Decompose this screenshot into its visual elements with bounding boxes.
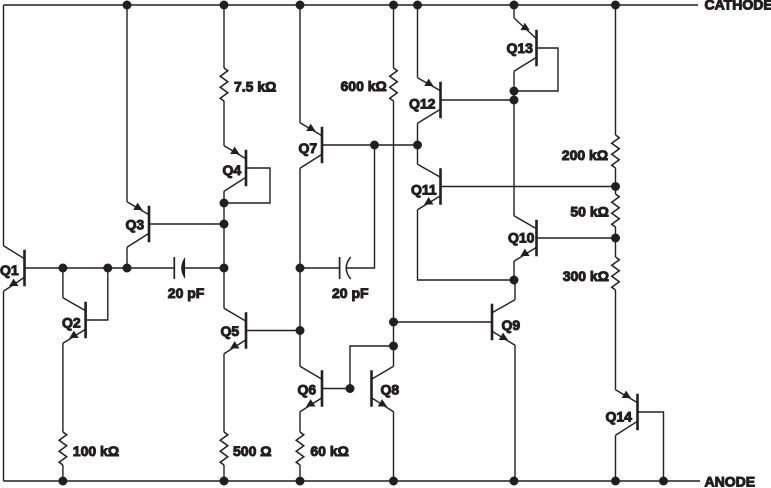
ANODE rail <box>4 480 701 482</box>
svg-text:ANODE: ANODE <box>705 474 756 488</box>
transistor Q5 <box>224 308 246 354</box>
wire Q13 emitter from cathode <box>513 5 515 18</box>
wire C1 to node at x224 <box>185 267 224 269</box>
wire Q2 collector <box>62 268 64 298</box>
wire Q5 collector <box>223 268 225 308</box>
capacitor C1 20 pF <box>173 257 175 279</box>
wire Q11 base <box>441 186 616 188</box>
wire Q3 base <box>149 223 224 225</box>
svg-text:Q5: Q5 <box>221 323 240 339</box>
wire Q11 emitter to node <box>418 210 515 280</box>
capacitor C2 20 pF <box>300 267 340 269</box>
wire Q13 base loop <box>514 48 558 91</box>
transistor Q10 <box>514 216 537 262</box>
wire Q12 collector <box>417 123 419 145</box>
svg-text:20 pF: 20 pF <box>168 285 205 301</box>
wire cathode to R2 <box>223 5 225 68</box>
wire Q6 emitter <box>299 412 301 432</box>
wire x514 run to Q10 <box>513 91 515 216</box>
svg-text:Q14: Q14 <box>606 409 633 425</box>
resistor R1 100k <box>59 432 67 465</box>
transistor Q7 <box>300 123 322 169</box>
wire Q7 base row <box>322 144 418 146</box>
svg-text:Q1: Q1 <box>0 262 19 278</box>
wire Q10 emitter <box>513 261 515 280</box>
resistor R2 7.5k <box>220 68 228 101</box>
wire Q8 collector <box>393 346 395 366</box>
transistor Q12 <box>418 78 441 124</box>
svg-text:Q7: Q7 <box>299 140 318 156</box>
junction dots internal nodes <box>58 264 67 273</box>
transistor Q6 <box>300 366 322 412</box>
wire Q6/Q8 base tie <box>350 346 394 389</box>
svg-text:Q10: Q10 <box>508 230 535 246</box>
wire R1 to anode <box>62 465 64 481</box>
wire Q5 emitter <box>223 354 225 432</box>
svg-text:100 kΩ: 100 kΩ <box>73 443 119 459</box>
svg-text:500 Ω: 500 Ω <box>233 443 271 459</box>
resistor R5 600k <box>390 68 398 101</box>
svg-text:300 kΩ: 300 kΩ <box>563 268 609 284</box>
wire Q5 base <box>246 330 300 332</box>
wire R3 to anode <box>223 465 225 481</box>
svg-text:Q13: Q13 <box>507 40 534 56</box>
resistor R8 300k <box>612 257 620 290</box>
svg-text:7.5 kΩ: 7.5 kΩ <box>234 79 276 95</box>
wire Q2 emitter <box>62 343 64 432</box>
wire R5 down to Q8 collector node <box>393 101 395 346</box>
svg-text:Q6: Q6 <box>298 382 317 398</box>
svg-text:Q3: Q3 <box>126 217 145 233</box>
svg-text:60 kΩ: 60 kΩ <box>310 443 348 459</box>
svg-text:Q2: Q2 <box>62 315 81 331</box>
wire Q1 collector to cathode <box>3 5 5 246</box>
transistor Q2 <box>63 298 86 344</box>
svg-text:CATHODE: CATHODE <box>705 0 771 13</box>
resistor R3 500 <box>220 432 228 465</box>
wire Q14 collector <box>615 435 617 481</box>
wire Q2 base loop <box>86 268 108 320</box>
wire R8 to Q14 emitter <box>615 290 617 390</box>
wire cathode to R6 <box>615 5 617 135</box>
transistor Q14 <box>616 390 638 436</box>
svg-text:600 kΩ: 600 kΩ <box>341 78 387 94</box>
wire Q14 base loop <box>638 412 664 481</box>
svg-text:Q11: Q11 <box>411 182 437 198</box>
svg-text:20 pF: 20 pF <box>332 285 369 301</box>
wire Q7 emitter from cathode <box>299 5 301 123</box>
wire cathode to R5 <box>393 5 395 68</box>
resistor R7 50k <box>612 194 620 227</box>
svg-text:Q8: Q8 <box>381 382 400 398</box>
wire Q9 emitter <box>514 345 516 481</box>
CATHODE rail <box>4 4 699 6</box>
svg-text:Q9: Q9 <box>502 317 521 333</box>
wire Q3 collector <box>126 247 128 268</box>
wire Q8 emitter <box>393 412 395 481</box>
wire x224 junction run <box>223 203 225 268</box>
wire Q9 collector <box>514 280 516 300</box>
transistor Q13 <box>514 18 537 71</box>
wire Q13 collector <box>513 71 515 91</box>
wire Q10 base <box>537 237 616 239</box>
wire Q7 collector <box>299 168 301 268</box>
transistor Q11 <box>418 164 441 210</box>
transistor Q3 <box>127 202 149 248</box>
wire Q12 emitter from cathode <box>417 5 419 78</box>
wire Q12 base <box>441 99 515 101</box>
wire Q1 emitter to anode <box>3 291 5 481</box>
svg-text:50 kΩ: 50 kΩ <box>570 204 608 220</box>
resistor R6 200k <box>612 135 620 168</box>
wire x300 run to Q6 <box>299 268 301 366</box>
resistor R4 60k <box>296 432 304 465</box>
transistor Q9 <box>492 300 515 346</box>
wire Q4 collector <box>223 191 225 203</box>
svg-text:200 kΩ: 200 kΩ <box>562 147 608 163</box>
wire Q4 base loop <box>224 168 270 203</box>
junction dots on anode rail <box>58 477 67 486</box>
wire R2 to Q4 emitter <box>223 101 225 146</box>
wire Q9 base <box>394 321 493 323</box>
wire R4 to anode <box>299 465 301 481</box>
wire node-A row (Q1 base to capacitor C1) <box>25 267 175 269</box>
junction dots on cathode rail <box>123 1 132 10</box>
wire Q3 emitter from cathode <box>126 5 128 202</box>
transistor Q8 <box>372 366 394 412</box>
wire R6 to R7 <box>615 168 617 194</box>
wire Q11 collector <box>417 145 419 164</box>
transistor Q4 <box>224 146 246 192</box>
wire Q6 base <box>322 388 350 390</box>
svg-text:Q12: Q12 <box>409 96 436 112</box>
transistor Q1 <box>4 246 25 292</box>
svg-text:Q4: Q4 <box>223 162 242 178</box>
wire R7 to R8 <box>615 227 617 257</box>
wire C2 to Q7 base <box>347 145 375 268</box>
